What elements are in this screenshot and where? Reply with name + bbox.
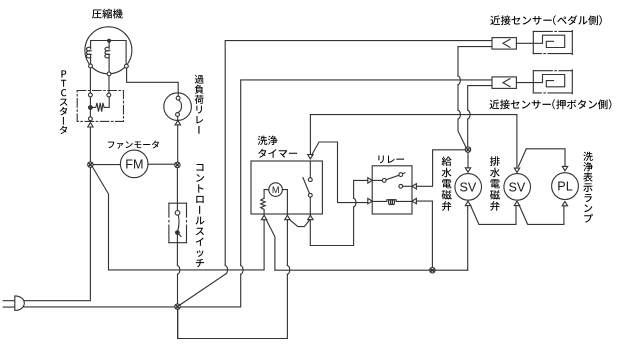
sensor2 coil spiral: [543, 75, 565, 87]
svg-text:PL: PL: [557, 180, 572, 194]
compressor start winding: [105, 47, 109, 58]
hop relay common wire over coil wire: [354, 198, 356, 207]
label PTCスタータ: [60, 70, 68, 134]
bridge timer pin2 to pin3: [290, 220, 310, 227]
timer switch contact bottom: [308, 193, 312, 197]
node B junction: [175, 162, 180, 167]
overload relay bimetal element: [178, 100, 182, 113]
overload relay terminal top: [176, 96, 180, 100]
relay pin L2: [368, 198, 372, 203]
wire timer pin1 diagonal to right bus: [266, 220, 275, 271]
svg-text:SV: SV: [508, 180, 525, 194]
sensor2 connector: [492, 77, 516, 89]
wire timer pin2 down: [286, 220, 288, 266]
wire node C to SV1: [467, 152, 469, 167]
PTC internal wire: [89, 97, 91, 117]
PL text: [557, 180, 572, 194]
svg-text:SV: SV: [459, 180, 476, 194]
relay switch throw2 contact: [399, 184, 403, 188]
wire node A to fan motor: [93, 164, 120, 166]
compressor terminal R: [125, 64, 129, 68]
sensor2 body (dash-dot): [533, 70, 572, 94]
wire SV1 diagonal to SV2: [471, 206, 516, 225]
relay pin R2: [412, 198, 416, 203]
SV1 bottom pin: [465, 201, 470, 205]
sensor1 connector: [492, 38, 516, 50]
wire to neutral node: [177, 274, 179, 303]
control switch contact bottom: [175, 230, 180, 235]
wire sensor2 signal: [241, 80, 492, 266]
wire node B to control switch: [176, 168, 178, 211]
node C junction: [465, 147, 470, 152]
label 過負荷リレー (overload relay): [195, 75, 204, 134]
wire sensor2 to neutral node: [180, 274, 240, 307]
PTC terminal 2: [107, 93, 111, 97]
wire timer pin2 to bottom bus: [178, 274, 288, 338]
overload relay terminal bottom: [176, 113, 180, 117]
node A junction: [88, 162, 93, 167]
timer pin 3: [308, 215, 313, 219]
PTC terminal 3: [89, 117, 93, 121]
compressor internal wiring: [91, 41, 127, 65]
PTC terminal 1: [89, 93, 93, 97]
relay switch throw1 contact: [399, 173, 403, 177]
neutral node junction: [175, 304, 180, 309]
hop sensor1 return over sensor2 wire: [458, 76, 460, 85]
wire relay R1 to node C: [416, 150, 465, 187]
timer motor M text: [272, 185, 280, 195]
compressor terminal S: [107, 72, 111, 76]
wire sensor bus to timer top pin: [309, 115, 311, 155]
solenoid valve SV1: [455, 174, 482, 201]
wire S-terminal to PTC: [108, 76, 110, 93]
label ファンモータ (fan motor): [108, 141, 159, 149]
fan motor FM: [120, 150, 148, 178]
timer switch wire: [309, 161, 311, 178]
relay enclosure: [372, 166, 412, 214]
PTC junction dot: [88, 105, 93, 110]
wire plug to neutral node: [23, 306, 175, 308]
wire sensor1 signal: [225, 41, 492, 266]
label 排水電磁弁: [490, 156, 500, 210]
hop sensor2 return over SV bus: [468, 110, 470, 119]
timer motor right wire: [282, 190, 287, 216]
relay switch throw2 wire: [403, 185, 412, 187]
power plug: [3, 296, 24, 311]
control switch blade: [178, 215, 181, 236]
svg-text:M: M: [272, 185, 280, 195]
relay coil: [372, 200, 412, 205]
SV2 bottom pin: [514, 201, 519, 205]
wire sensor1 diagonal to neutral node: [180, 274, 226, 305]
timer motor left wire: [264, 190, 269, 199]
svg-text:FM: FM: [125, 157, 143, 171]
label 近接センサー（ペダル側）: [490, 15, 602, 25]
hop sensor1 return over SV bus: [458, 110, 460, 119]
PL top pin: [562, 166, 567, 170]
wire relay common upper: [354, 180, 368, 198]
label 給水電磁弁: [442, 156, 452, 210]
wire sensor2 return: [468, 86, 492, 111]
wire timer pin1 to left bus: [109, 220, 265, 270]
wire connector2 to sensor2: [516, 82, 542, 84]
washing timer enclosure: [251, 161, 322, 214]
sensor1 body (dash-dot): [533, 31, 572, 55]
label 圧縮機 (compressor): [92, 9, 123, 19]
SV1 text: [459, 180, 476, 194]
wire winding to terminals: [91, 55, 110, 72]
wire SV1 to right bus: [467, 206, 469, 271]
wire node A diagonal branch: [92, 167, 108, 270]
PTC resistor element: [93, 97, 110, 112]
wire PL top: [526, 149, 565, 166]
control switch enclosure: [169, 203, 187, 243]
node D junction: [430, 268, 435, 273]
wire node A to power plug: [24, 167, 90, 300]
wire sensor1 return: [458, 47, 492, 77]
wire overload relay to node B: [177, 125, 179, 162]
right bus wire: [275, 269, 468, 271]
timer switch contact top: [308, 178, 312, 182]
wire PTC to node A: [89, 127, 91, 162]
wire fan motor to node B: [148, 163, 175, 165]
timer motor M housing: [269, 183, 283, 197]
wire control switch down: [176, 235, 178, 266]
connector pin below overload relay: [175, 121, 180, 125]
wire R-terminal to overload relay: [127, 68, 179, 96]
fan motor FM text: [125, 157, 143, 171]
wire timer pin3 to relay common: [310, 207, 353, 246]
relay switch common contact: [382, 179, 386, 183]
wire relay R2 to node D: [416, 201, 432, 267]
wire timer to solenoid bus: [310, 115, 517, 168]
SV2 top pin: [514, 168, 519, 172]
connector pin below PTC: [88, 123, 93, 127]
wire PL to SV2 top: [519, 149, 527, 167]
relay switch common wire: [372, 179, 382, 181]
wire SV2 diagonal to PL: [519, 206, 564, 225]
wire sensor2 return lower: [467, 119, 469, 147]
compressor M1 housing: [85, 27, 132, 74]
sensor1 coil spiral: [543, 35, 565, 47]
wire neutral node to bottom bus: [177, 309, 179, 338]
SV2 text: [508, 180, 525, 194]
timer switch blade: [303, 178, 310, 194]
timer pin 1: [261, 215, 266, 219]
compressor terminal C: [89, 64, 93, 68]
hop sensor1 wire over left bus: [225, 266, 227, 275]
relay switch blade: [386, 173, 405, 180]
solenoid valve SV2: [504, 174, 531, 201]
relay pin R1: [412, 184, 416, 189]
hop control switch wire over bus: [178, 266, 180, 275]
junction dot compressor windings: [107, 39, 111, 43]
wire sensor1 return mid: [457, 85, 459, 111]
wire timer top pin to relay coil: [312, 142, 368, 203]
hop timer pin2 wire over bus: [287, 266, 289, 275]
SV1 top pin: [465, 168, 470, 172]
label タイマー (timer line2): [258, 149, 297, 158]
wire relay to connector pin: [177, 116, 179, 120]
wire connector1 to sensor1: [516, 42, 542, 44]
relay pin L1: [368, 178, 372, 183]
overload relay housing: [164, 93, 192, 121]
wire sensor1 return lower: [458, 119, 466, 148]
control switch contact top: [175, 211, 180, 216]
label 洗浄表示ランプ: [583, 152, 593, 223]
label リレー (relay): [378, 156, 404, 164]
wire C-terminal to PTC: [89, 68, 91, 93]
compressor main winding: [86, 47, 90, 58]
pilot lamp PL: [552, 173, 579, 200]
timer top pin: [308, 155, 313, 159]
PL bottom pin: [562, 201, 567, 205]
timer switch wire down: [309, 197, 311, 215]
label コントロールスイッチ (control switch): [196, 164, 205, 267]
label 洗浄 (timer line1): [258, 136, 278, 146]
hop sensor2 wire over left bus: [241, 266, 243, 275]
timer pin 2: [285, 215, 290, 219]
PTC starter enclosure (dash-dot): [77, 91, 123, 122]
timer resistor: [261, 198, 266, 215]
label 近接センサー（押ボタン側）: [490, 99, 612, 109]
